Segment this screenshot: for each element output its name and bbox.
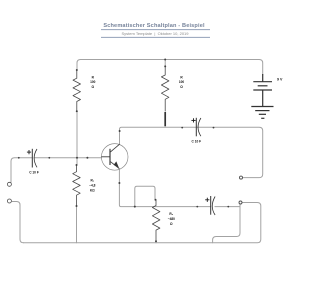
svg-text:System Template | Oktober 10: System Template | Oktober 10, 2019 — [122, 31, 190, 36]
svg-text:R₂: R₂ — [90, 178, 94, 182]
resistor R3 (480 Ohm) — [152, 200, 160, 242]
wire collector rail with right drop to upper output — [120, 127, 263, 177]
output terminal lower — [239, 201, 242, 204]
value label "R2 ~4,8 KOhm" — [89, 178, 96, 192]
svg-text:Ω: Ω — [180, 85, 183, 89]
transistor Q1 — [101, 144, 128, 171]
svg-text:100: 100 — [90, 80, 96, 84]
wire stub + junction at top rail for upper-middle resistor — [164, 60, 166, 67]
title rule top — [101, 29, 210, 31]
wire base horizontal — [34, 157, 101, 159]
svg-text:Ω: Ω — [92, 85, 95, 89]
capacitor C3 — [211, 196, 215, 215]
value label "R3 ~480 Ohm" — [168, 212, 175, 226]
wire C3 right to corner down-left to rail — [213, 204, 240, 243]
wire bottom rail — [24, 203, 261, 243]
wire R2 bottom to ground rail — [76, 206, 78, 243]
svg-text:KΩ: KΩ — [90, 188, 95, 192]
resistor R upper-middle (100 Ohm) — [161, 66, 169, 111]
svg-text:Schematischer Schaltplan - Bei: Schematischer Schaltplan - Beispiel — [103, 23, 205, 29]
svg-text:100: 100 — [179, 80, 185, 84]
svg-text:~480: ~480 — [168, 217, 175, 221]
resistor R upper-left (100 Ohm) — [73, 70, 81, 111]
node base junction — [76, 157, 78, 159]
value label "R 100 Ohm" (upper-middle resistor) — [179, 76, 185, 89]
node bump junction — [134, 206, 136, 208]
wire R3 bottom stub — [155, 241, 157, 243]
input terminal 2 — [7, 199, 11, 203]
battery B1 — [253, 74, 272, 107]
wire input terminal 2 to bottom rail — [12, 202, 23, 243]
wire left vertical: R upper-left to base node to R2 — [76, 111, 78, 165]
input terminal 1 — [7, 182, 11, 186]
wire top rail — [77, 60, 263, 76]
value label "R 100 Ohm" (upper-left resistor) — [90, 76, 96, 89]
svg-text:C 10 F: C 10 F — [29, 171, 39, 175]
resistor R2 (4,8 KOhm) — [73, 165, 81, 206]
capacitor C2 — [196, 118, 201, 137]
svg-text:Ω: Ω — [170, 222, 173, 226]
title rule bottom — [101, 36, 210, 38]
wire emitter down and right — [119, 169, 210, 207]
svg-text:R₃: R₃ — [169, 212, 173, 216]
wire bump over to R3 — [135, 186, 155, 206]
capacitor C1 — [32, 149, 37, 168]
svg-text:9 V: 9 V — [277, 78, 283, 82]
output terminal upper — [240, 176, 243, 179]
wire C1 to input terminal 1 — [11, 158, 32, 183]
ground — [251, 107, 273, 119]
svg-text:C 10 F: C 10 F — [192, 140, 202, 144]
svg-text:~4,8: ~4,8 — [89, 183, 96, 187]
